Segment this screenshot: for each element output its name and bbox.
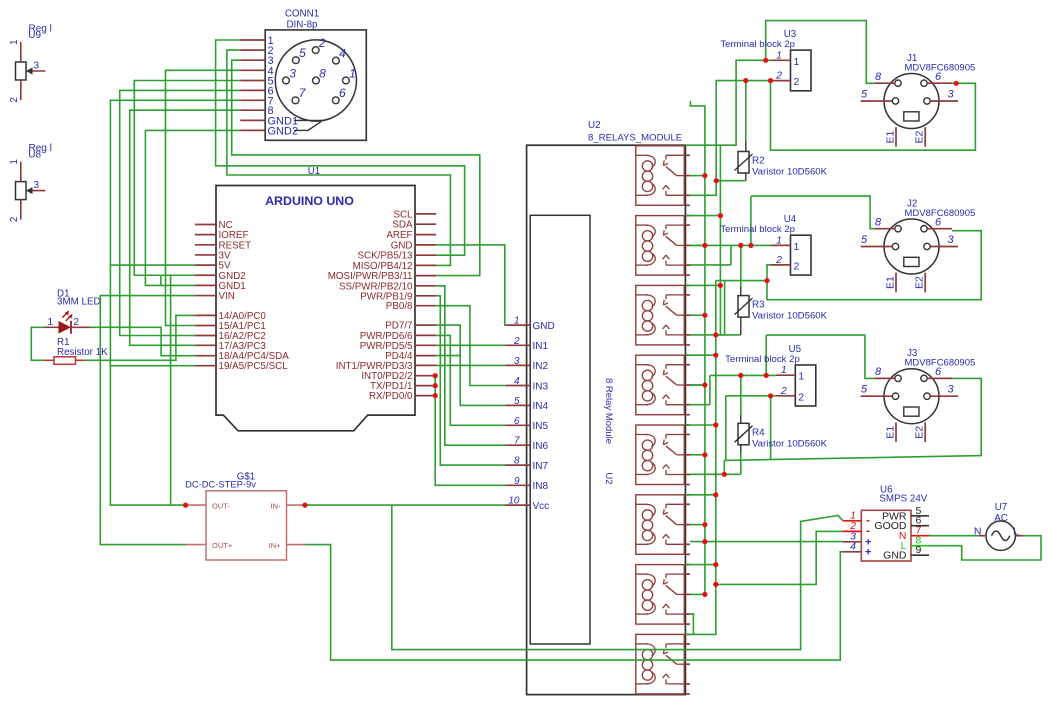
- svg-text:5: 5: [861, 234, 868, 246]
- svg-text:6: 6: [935, 217, 942, 229]
- svg-text:3: 3: [947, 384, 954, 396]
- svg-text:8: 8: [875, 217, 882, 229]
- svg-text:R4: R4: [752, 427, 765, 438]
- svg-text:3: 3: [947, 89, 954, 101]
- svg-text:RX/PD0/0: RX/PD0/0: [369, 391, 413, 402]
- svg-text:IN-: IN-: [271, 501, 282, 510]
- svg-text:U2: U2: [588, 120, 601, 131]
- svg-text:Varistor 10D560K: Varistor 10D560K: [752, 438, 828, 449]
- svg-text:1: 1: [776, 234, 782, 246]
- svg-text:9: 9: [916, 544, 922, 556]
- svg-text:1: 1: [9, 39, 20, 45]
- svg-text:U2: U2: [603, 472, 614, 484]
- svg-text:3: 3: [514, 356, 520, 367]
- svg-text:3: 3: [34, 180, 40, 191]
- svg-text:IN7: IN7: [533, 461, 549, 472]
- svg-text:VIN: VIN: [219, 291, 235, 302]
- svg-text:GND: GND: [533, 321, 555, 332]
- svg-text:IN+: IN+: [269, 541, 282, 550]
- svg-text:5: 5: [861, 89, 868, 101]
- svg-text:E1: E1: [885, 130, 897, 143]
- svg-text:8: 8: [514, 456, 520, 467]
- svg-text:1: 1: [794, 241, 800, 253]
- svg-text:Terminal block 2p: Terminal block 2p: [725, 354, 800, 365]
- svg-text:E2: E2: [914, 130, 926, 143]
- svg-text:2: 2: [794, 76, 800, 88]
- svg-text:GND: GND: [883, 550, 907, 562]
- svg-text:R2: R2: [752, 156, 765, 167]
- svg-text:E1: E1: [885, 276, 897, 289]
- svg-text:U8: U8: [28, 150, 41, 161]
- svg-text:3: 3: [289, 66, 296, 80]
- svg-text:ARDUINO UNO: ARDUINO UNO: [265, 194, 354, 208]
- svg-text:6: 6: [935, 71, 942, 83]
- svg-text:2: 2: [9, 216, 20, 222]
- svg-text:4: 4: [850, 540, 856, 552]
- svg-text:1: 1: [794, 56, 800, 68]
- svg-text:1: 1: [514, 316, 520, 327]
- svg-text:Terminal block 2p: Terminal block 2p: [720, 224, 795, 235]
- svg-text:6: 6: [339, 86, 346, 100]
- svg-text:8: 8: [875, 366, 882, 378]
- svg-text:Vcc: Vcc: [533, 501, 550, 512]
- svg-text:IN1: IN1: [533, 341, 549, 352]
- svg-text:OUT-: OUT-: [212, 501, 230, 510]
- svg-text:2: 2: [513, 336, 520, 347]
- svg-text:3MM LED: 3MM LED: [57, 296, 101, 307]
- svg-text:8: 8: [875, 71, 882, 83]
- svg-text:8: 8: [319, 66, 326, 80]
- svg-text:CONN1: CONN1: [285, 9, 319, 20]
- svg-text:SDA: SDA: [392, 220, 413, 231]
- svg-text:5: 5: [861, 384, 868, 396]
- svg-text:R3: R3: [752, 300, 765, 311]
- svg-text:1: 1: [776, 49, 782, 61]
- svg-text:2: 2: [9, 97, 20, 103]
- svg-text:Terminal block 2p: Terminal block 2p: [720, 39, 795, 50]
- svg-text:Varistor 10D560K: Varistor 10D560K: [752, 311, 828, 322]
- svg-text:2: 2: [775, 254, 782, 266]
- svg-text:2: 2: [794, 260, 800, 272]
- svg-text:2: 2: [780, 385, 787, 397]
- svg-text:3: 3: [947, 234, 954, 246]
- svg-text:SMPS 24V: SMPS 24V: [879, 494, 927, 505]
- svg-text:OUT+: OUT+: [212, 541, 233, 550]
- svg-text:DC-DC-STEP-9v: DC-DC-STEP-9v: [185, 478, 256, 489]
- svg-text:DIN-8p: DIN-8p: [286, 20, 318, 31]
- svg-text:+: +: [865, 546, 871, 558]
- svg-text:17/A3/PC3: 17/A3/PC3: [219, 341, 267, 352]
- svg-text:1: 1: [349, 66, 356, 80]
- svg-text:4: 4: [339, 46, 346, 60]
- svg-text:1: 1: [798, 371, 804, 383]
- svg-text:5: 5: [514, 396, 520, 407]
- svg-text:8 Relay Module: 8 Relay Module: [603, 378, 614, 444]
- svg-text:3: 3: [34, 61, 40, 72]
- svg-text:19/A5/PC5/SCL: 19/A5/PC5/SCL: [219, 361, 289, 372]
- svg-text:E2: E2: [914, 426, 926, 439]
- svg-text:U7: U7: [995, 502, 1008, 513]
- svg-text:6: 6: [935, 366, 942, 378]
- svg-text:IN3: IN3: [533, 381, 549, 392]
- svg-text:IN5: IN5: [533, 421, 549, 432]
- svg-text:L: L: [1013, 526, 1019, 538]
- svg-text:IN2: IN2: [533, 361, 549, 372]
- svg-text:-: -: [866, 523, 870, 537]
- svg-text:GND2: GND2: [268, 125, 299, 137]
- svg-text:5: 5: [299, 46, 306, 60]
- svg-text:6: 6: [514, 416, 520, 427]
- svg-text:E1: E1: [885, 426, 897, 439]
- svg-text:2: 2: [318, 36, 326, 50]
- svg-text:N: N: [974, 526, 982, 538]
- svg-text:1: 1: [781, 364, 787, 376]
- svg-text:IN4: IN4: [533, 401, 549, 412]
- svg-text:PB0/8: PB0/8: [386, 301, 413, 312]
- svg-text:IN6: IN6: [533, 441, 549, 452]
- svg-text:2: 2: [798, 391, 804, 403]
- svg-text:8_RELAYS_MODULE: 8_RELAYS_MODULE: [588, 133, 682, 144]
- svg-text:10: 10: [508, 496, 520, 507]
- svg-text:9: 9: [514, 476, 520, 487]
- svg-text:1: 1: [47, 317, 53, 328]
- svg-text:1: 1: [9, 159, 20, 165]
- svg-text:2: 2: [74, 317, 80, 328]
- svg-text:4: 4: [514, 376, 520, 387]
- svg-text:IN8: IN8: [533, 481, 549, 492]
- svg-text:E2: E2: [914, 276, 926, 289]
- svg-text:Varistor 10D560K: Varistor 10D560K: [752, 167, 828, 178]
- svg-text:7: 7: [514, 436, 520, 447]
- svg-text:2: 2: [775, 70, 782, 82]
- svg-text:U9: U9: [28, 30, 41, 41]
